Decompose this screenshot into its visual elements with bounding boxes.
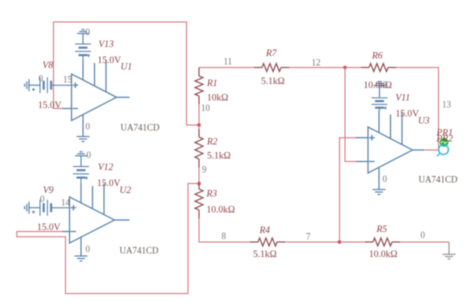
svg-text:PR2: PR2 <box>436 135 454 145</box>
svg-text:R6: R6 <box>371 52 383 62</box>
wire U3 output to net 13 <box>424 149 439 151</box>
resistor R3 <box>195 184 203 219</box>
junction node 10 <box>197 123 201 127</box>
ground (V8) <box>25 79 40 91</box>
ground (V11) <box>374 82 386 98</box>
svg-text:15.0V: 15.0V <box>396 110 420 120</box>
junction node 9 <box>197 182 201 186</box>
svg-text:0: 0 <box>86 27 91 37</box>
ground (U1 VEE pin) <box>77 137 90 142</box>
svg-text:15.0V: 15.0V <box>98 56 122 66</box>
svg-text:10.0kΩ: 10.0kΩ <box>369 250 397 260</box>
resistor R7 <box>254 64 289 72</box>
svg-text:R7: R7 <box>265 49 278 59</box>
svg-text:V11: V11 <box>396 94 411 104</box>
wire R5 right to ground net 0 <box>400 241 449 243</box>
svg-text:R5: R5 <box>376 225 388 235</box>
ground (V12) <box>75 152 87 167</box>
svg-text:V8: V8 <box>43 61 54 71</box>
svg-text:5.1kΩ: 5.1kΩ <box>207 152 231 162</box>
battery V11 <box>372 98 388 110</box>
ground (U3 VEE pin) <box>373 190 386 195</box>
resistor R4 <box>250 238 285 246</box>
ground (V9) <box>25 202 40 214</box>
svg-text:UA741CD: UA741CD <box>121 123 161 133</box>
wire net 12 (R7 right to junction) <box>289 67 345 69</box>
svg-text:V12: V12 <box>98 163 114 173</box>
wire node 7 junction to R5 <box>340 241 366 243</box>
svg-text:9: 9 <box>202 165 207 175</box>
battery V13 <box>75 44 91 60</box>
battery V8 <box>32 77 72 93</box>
svg-text:U1: U1 <box>121 63 133 73</box>
wire R6 right to net 13 corner <box>396 68 439 151</box>
svg-text:15.0V: 15.0V <box>37 223 61 233</box>
svg-text:0: 0 <box>40 194 45 204</box>
ground (U2 VEE pin) <box>75 256 88 261</box>
resistor R6 <box>361 64 396 72</box>
wire node 7 to U3 non-inverting input <box>340 138 358 242</box>
svg-text:10.0kΩ: 10.0kΩ <box>364 81 392 91</box>
svg-text:R3: R3 <box>206 190 218 200</box>
op-amp U2 <box>62 184 130 256</box>
svg-text:0: 0 <box>86 244 91 254</box>
svg-text:UA741CD: UA741CD <box>419 175 459 185</box>
svg-text:14: 14 <box>61 198 71 208</box>
svg-text:5.1kΩ: 5.1kΩ <box>261 77 285 87</box>
probe PR2 <box>437 145 448 156</box>
wire U1 feedback loop (-in to node 10) <box>54 22 200 125</box>
ground (V13) <box>77 30 89 45</box>
svg-text:11: 11 <box>224 57 233 67</box>
svg-text:U2: U2 <box>120 186 132 196</box>
battery V12 <box>73 167 89 185</box>
svg-text:0: 0 <box>39 74 44 84</box>
svg-text:12: 12 <box>312 58 321 68</box>
wire node 9 segment (R2 bottom to junction) <box>198 168 200 184</box>
svg-text:15.0V: 15.0V <box>38 101 62 111</box>
op-amp U1 <box>62 60 130 136</box>
wire node 10 to R2 <box>198 125 200 129</box>
wire node 12 to U3 inverting input <box>345 68 357 162</box>
svg-text:10.0kΩ: 10.0kΩ <box>207 206 235 216</box>
op-amp U3 <box>356 110 424 189</box>
svg-text:0: 0 <box>383 80 388 90</box>
svg-text:R2: R2 <box>206 138 218 148</box>
wire U2 feedback loop (node 9 to U2 -in) <box>17 184 199 294</box>
svg-text:V13: V13 <box>99 40 115 50</box>
svg-text:UA741CD: UA741CD <box>120 246 160 256</box>
svg-text:15.0V: 15.0V <box>97 179 121 189</box>
junction node 7 <box>338 240 342 244</box>
svg-text:8: 8 <box>222 231 227 241</box>
svg-text:10: 10 <box>201 103 211 113</box>
junction node 12 <box>343 66 347 70</box>
svg-text:0: 0 <box>421 230 426 240</box>
svg-text:15: 15 <box>63 75 73 85</box>
probe PR1 <box>440 138 449 147</box>
wire node 7 (R4 to junction) <box>285 241 340 243</box>
wire node 10 segment (R1 bottom lead to junction) <box>198 104 200 125</box>
svg-text:0: 0 <box>383 174 388 184</box>
battery V9 <box>32 200 70 216</box>
ground (net 0, bottom right) <box>443 242 456 259</box>
wire R3 bottom to node 8 wire <box>199 219 250 243</box>
svg-text:10kΩ: 10kΩ <box>207 94 228 104</box>
svg-text:U3: U3 <box>418 117 430 127</box>
svg-text:13: 13 <box>442 100 452 110</box>
resistor R2 <box>195 129 203 168</box>
svg-text:7: 7 <box>306 232 311 242</box>
wire top net 11 (R1 top to R7) <box>199 67 254 69</box>
svg-text:0: 0 <box>87 150 92 160</box>
wire node 12 to R6 <box>345 67 361 69</box>
resistor R5 <box>365 238 400 246</box>
svg-text:R1: R1 <box>206 79 218 89</box>
svg-text:V9: V9 <box>43 186 54 196</box>
svg-text:5.1kΩ: 5.1kΩ <box>253 250 277 260</box>
resistor R1 <box>195 68 203 105</box>
svg-text:0: 0 <box>86 122 91 132</box>
svg-text:R4: R4 <box>259 226 271 236</box>
